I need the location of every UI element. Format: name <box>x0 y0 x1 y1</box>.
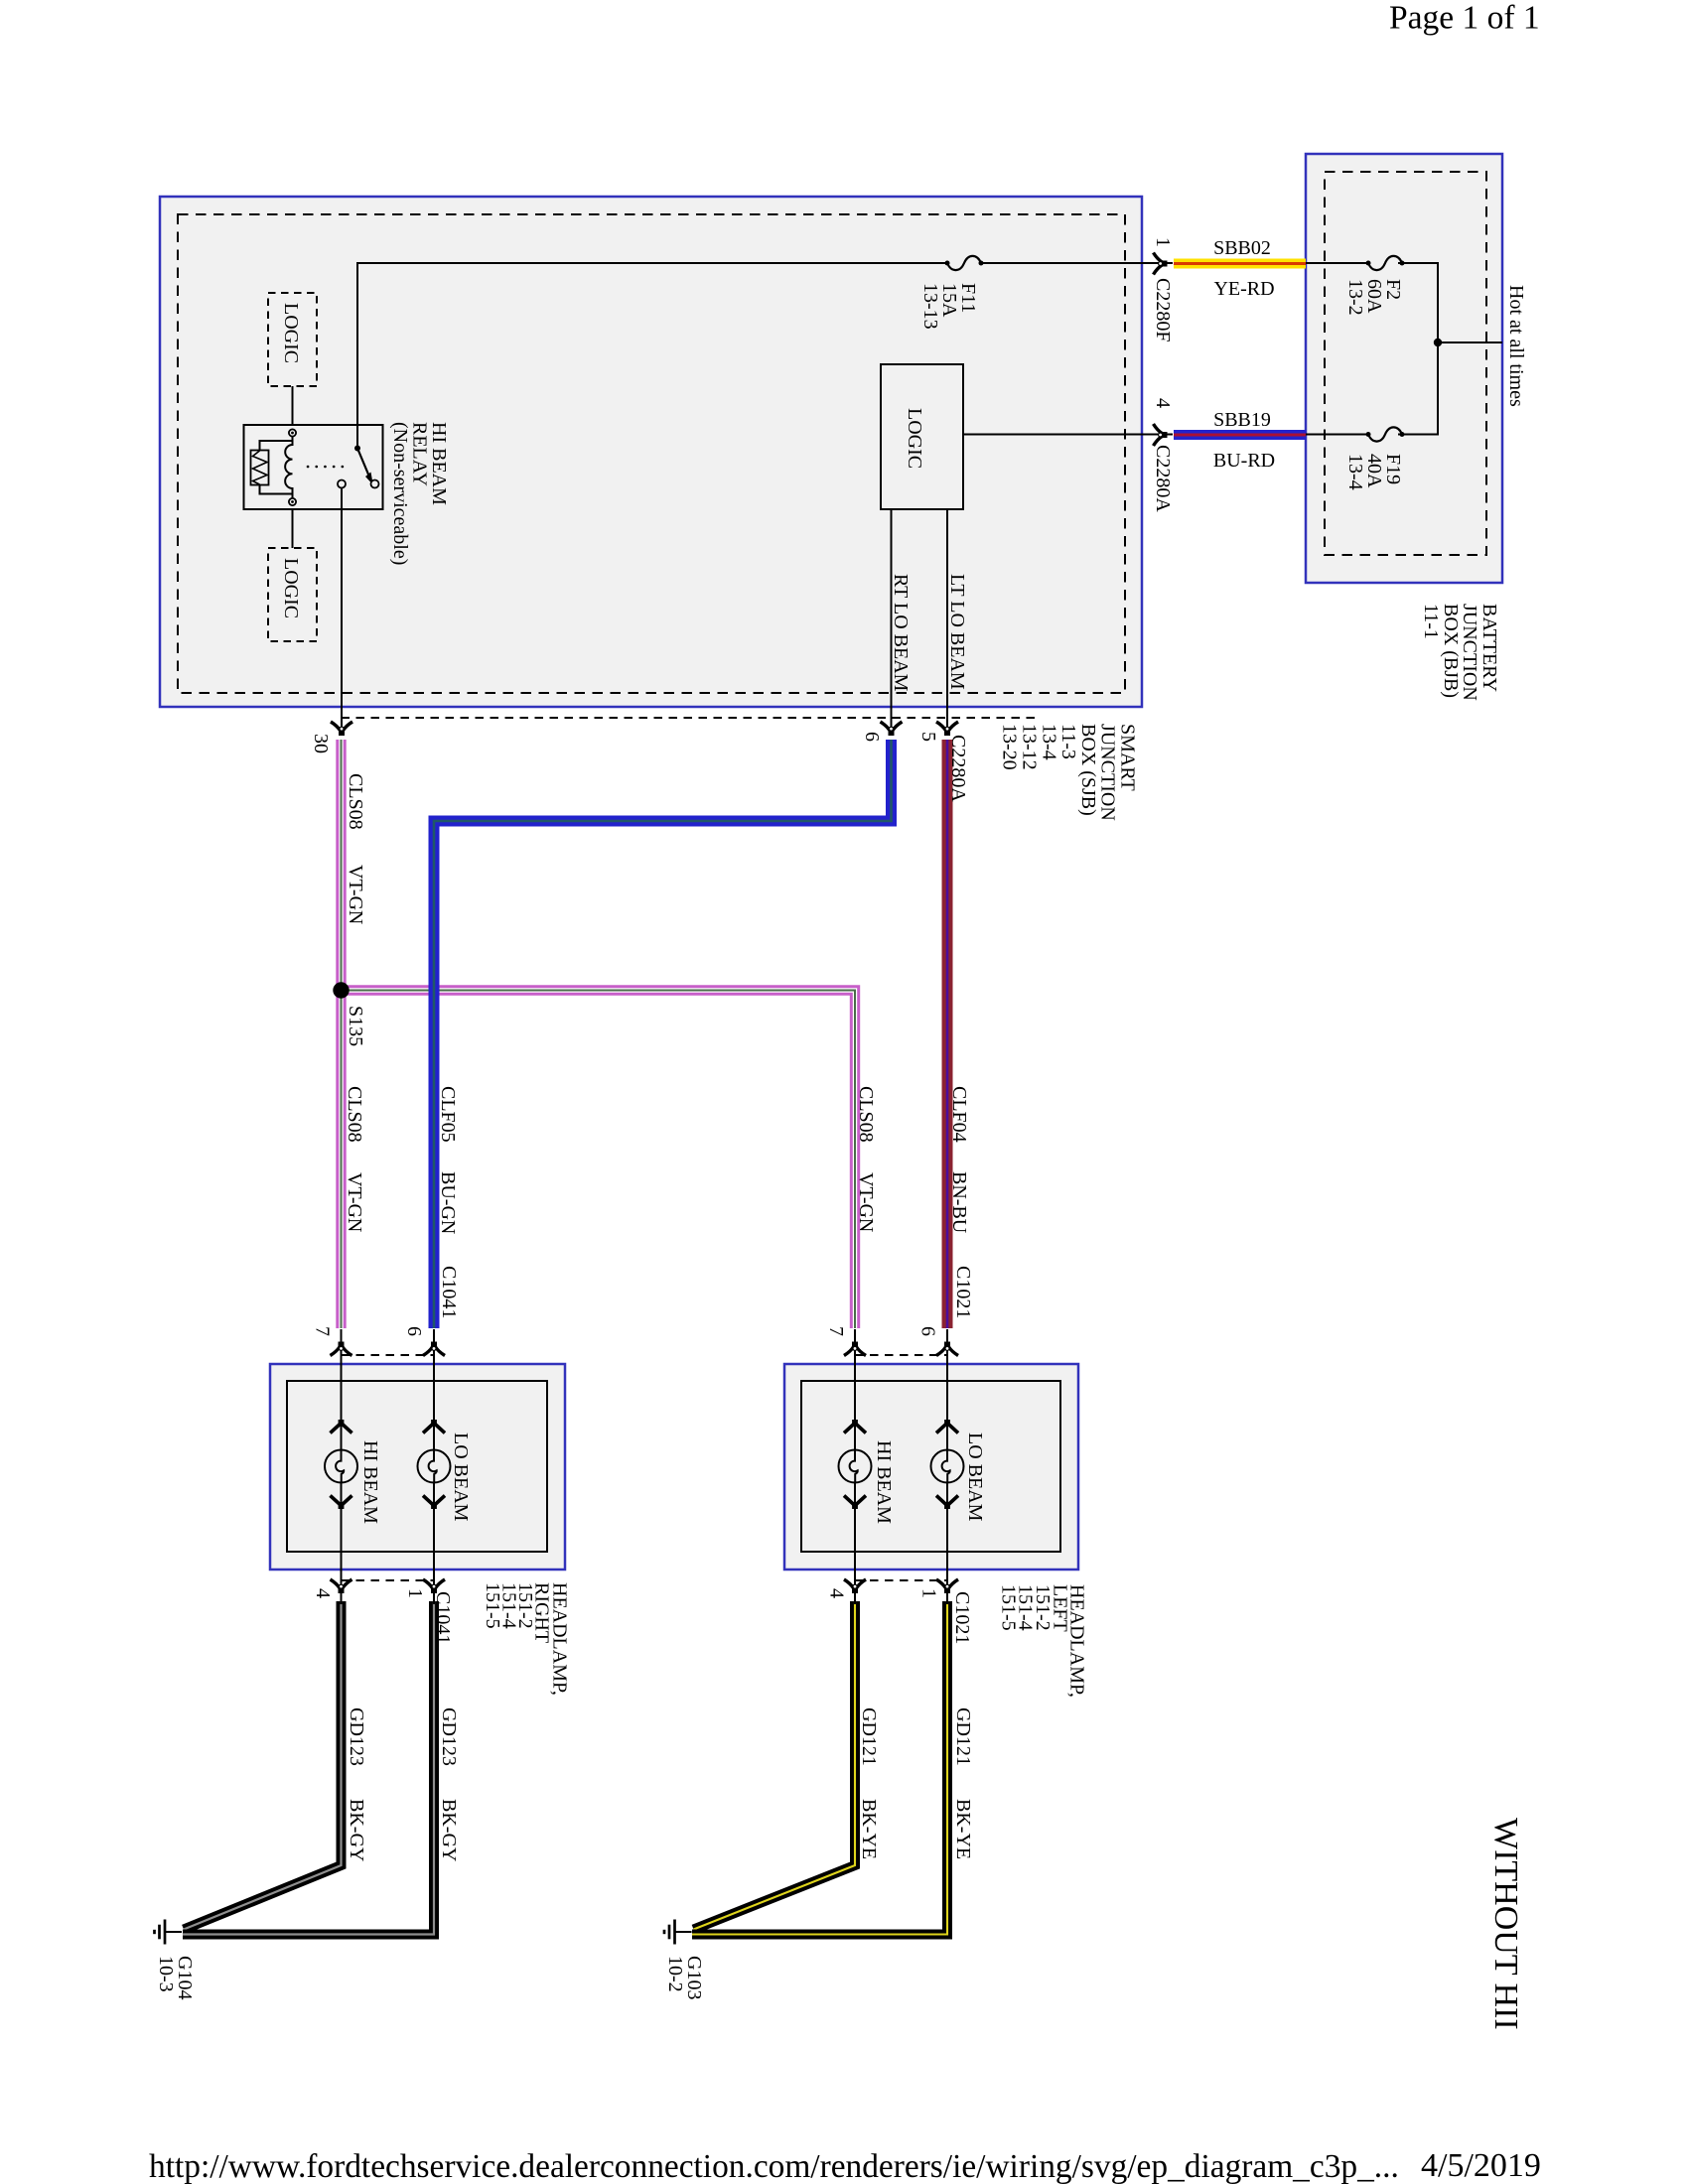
svg-text:BU-GN: BU-GN <box>437 1171 459 1234</box>
smart junction box SJB outline <box>160 197 1142 707</box>
bulb LO BEAM right <box>418 1450 451 1483</box>
svg-text:(Non-serviceable): (Non-serviceable) <box>389 422 411 565</box>
wire LOGIC pin 5 stem <box>946 509 948 730</box>
wire LOGIC pin 6 stem <box>891 509 893 730</box>
bulb HI BEAM right <box>325 1450 357 1483</box>
relay resistor <box>251 451 269 485</box>
headlamp right inner box <box>287 1381 547 1552</box>
svg-text:http://www.fordtechservice.dea: http://www.fordtechservice.dealerconnect… <box>149 2148 1399 2184</box>
svg-text:CLS08: CLS08 <box>345 773 366 830</box>
svg-text:13-4: 13-4 <box>1038 724 1059 760</box>
svg-text:Page 1 of 1: Page 1 of 1 <box>1389 0 1540 37</box>
relay actuation dotted line <box>308 466 351 469</box>
wire LOGIC to connector C2280A <box>963 434 1173 436</box>
svg-text:13-20: 13-20 <box>999 724 1021 770</box>
wire GD123 BK-GY headlamp right pin 1 to G104 <box>183 1601 434 1935</box>
relay HI BEAM RELAY box <box>244 425 383 509</box>
svg-text:30: 30 <box>310 734 332 753</box>
svg-text:S135: S135 <box>345 1006 366 1046</box>
connector C2280A marker (to BJB) <box>1154 424 1168 446</box>
svg-text:LO BEAM: LO BEAM <box>450 1433 472 1522</box>
connector C2280F marker <box>1154 253 1168 275</box>
wire GD123 BK-GY headlamp right pin 4 to G104 <box>184 1601 342 1930</box>
svg-text:6: 6 <box>403 1326 425 1336</box>
svg-text:GD121: GD121 <box>952 1707 974 1766</box>
svg-text:JUNCTION: JUNCTION <box>1097 724 1119 821</box>
wire relay to fuse F11 <box>357 263 945 448</box>
wire CLS08 VT-GN pin30 to S135 to headlamp right pin 7 <box>336 740 346 1328</box>
headlamp right bottom connector dashed line <box>342 1579 435 1581</box>
svg-text:4/5/2019: 4/5/2019 <box>1421 2147 1541 2184</box>
svg-text:HI BEAM: HI BEAM <box>873 1440 895 1524</box>
headlamp right pin 1 marker <box>423 1579 445 1593</box>
svg-text:GD123: GD123 <box>346 1707 367 1766</box>
svg-text:151-5: 151-5 <box>998 1584 1020 1631</box>
svg-text:VT-GN: VT-GN <box>344 1172 365 1232</box>
headlamp left pin 7 marker <box>844 1342 866 1356</box>
headlamp left pin 1 marker <box>936 1579 958 1593</box>
bulb LO BEAM left <box>931 1450 964 1483</box>
svg-text:13-13: 13-13 <box>919 283 941 330</box>
headlamp left LO BEAM line <box>946 1329 948 1604</box>
svg-text:1: 1 <box>918 1588 940 1598</box>
headlamp left bottom connector dashed line <box>855 1579 947 1581</box>
svg-text:BATTERY: BATTERY <box>1478 604 1500 692</box>
svg-text:LOGIC: LOGIC <box>280 303 302 363</box>
bulb arrows right LO <box>423 1420 445 1433</box>
svg-text:SBB19: SBB19 <box>1213 409 1271 431</box>
svg-text:C1021: C1021 <box>951 1591 973 1644</box>
headlamp right LO BEAM line <box>433 1329 435 1604</box>
svg-text:C1041: C1041 <box>432 1591 454 1644</box>
svg-text:BK-GY: BK-GY <box>346 1799 367 1861</box>
wire GD121 BK-YE headlamp left pin 1 to G103 <box>692 1601 947 1935</box>
svg-text:C2280F: C2280F <box>1152 278 1174 341</box>
headlamp right pin 4 marker <box>331 1579 352 1593</box>
connector pin 5 marker <box>936 722 958 736</box>
svg-text:VT-GN: VT-GN <box>345 865 366 924</box>
svg-text:5: 5 <box>917 732 939 742</box>
svg-text:LOGIC: LOGIC <box>280 558 302 618</box>
headlamp right pin 6 marker <box>423 1342 445 1356</box>
svg-text:13-12: 13-12 <box>1019 724 1041 770</box>
svg-text:LOGIC: LOGIC <box>904 408 925 469</box>
svg-text:10-3: 10-3 <box>155 1956 177 1992</box>
SJB inner dashed border <box>178 214 1125 693</box>
bulb arrows right HI <box>331 1420 352 1433</box>
svg-text:SMART: SMART <box>1117 724 1139 791</box>
svg-text:10-2: 10-2 <box>664 1956 686 1992</box>
headlamp right HI BEAM line <box>341 1329 343 1604</box>
wire relay switch to pin 30 <box>341 488 343 731</box>
headlamp right box <box>270 1364 565 1570</box>
svg-text:CLF05: CLF05 <box>437 1086 459 1143</box>
relay switch arm <box>357 449 369 477</box>
svg-text:SBB02: SBB02 <box>1213 237 1271 259</box>
wire GD121 BK-YE headlamp left pin 4 to G103 <box>694 1601 856 1930</box>
svg-text:C1041: C1041 <box>438 1266 460 1318</box>
svg-text:YE-RD: YE-RD <box>1213 278 1274 300</box>
svg-text:1: 1 <box>404 1588 426 1598</box>
headlamp left top connector dashed line <box>855 1354 947 1356</box>
headlamp right pin 7 marker <box>331 1342 352 1356</box>
svg-text:VT-GN: VT-GN <box>855 1172 877 1232</box>
fuse F19 40A <box>1366 427 1405 441</box>
svg-text:HI BEAM: HI BEAM <box>359 1440 381 1524</box>
svg-text:151-5: 151-5 <box>482 1582 503 1629</box>
relay top terminal <box>289 429 296 436</box>
svg-text:C1021: C1021 <box>952 1266 974 1318</box>
svg-text:GD123: GD123 <box>438 1707 460 1766</box>
svg-text:CLS08: CLS08 <box>344 1086 365 1143</box>
svg-text:6: 6 <box>861 732 883 742</box>
svg-text:Hot at all times: Hot at all times <box>1505 285 1527 407</box>
svg-text:CLF04: CLF04 <box>948 1086 970 1143</box>
svg-text:GD121: GD121 <box>858 1707 880 1766</box>
battery junction box BJB outline <box>1306 154 1502 583</box>
headlamp right top connector dashed line <box>342 1354 435 1356</box>
splice S135 <box>333 982 349 998</box>
connector pin 6 marker <box>881 722 903 736</box>
wire relay coil to LOGIC2 <box>292 509 294 548</box>
headlamp left box <box>784 1364 1078 1570</box>
svg-text:4: 4 <box>312 1588 334 1598</box>
headlamp left pin 6 marker <box>936 1342 958 1356</box>
wire LOGIC1 to relay coil <box>292 386 294 425</box>
wire SBB02 YE-RD <box>1174 259 1306 269</box>
svg-text:LO BEAM: LO BEAM <box>964 1433 986 1522</box>
BJB internal wiring <box>1306 263 1502 435</box>
svg-text:13-2: 13-2 <box>1344 279 1366 316</box>
connector C2280A dashed line under SJB <box>342 717 1037 719</box>
bulb HI BEAM left <box>839 1450 872 1483</box>
BJB junction node <box>1434 339 1442 346</box>
svg-text:BN-BU: BN-BU <box>948 1171 970 1234</box>
relay resistor connections <box>260 441 293 494</box>
svg-text:BU-RD: BU-RD <box>1213 450 1275 472</box>
svg-text:C2280A: C2280A <box>1152 445 1174 512</box>
relay coil <box>285 437 292 498</box>
wire SBB19 BU-RD <box>1174 430 1306 440</box>
bulb arrows left LO <box>936 1420 958 1433</box>
svg-text:C2280A: C2280A <box>947 735 969 802</box>
logic box dashed lower <box>268 548 317 641</box>
relay switch pivot <box>354 446 360 452</box>
connector pin 30 marker <box>331 722 352 736</box>
bulb arrows left HI <box>844 1420 866 1433</box>
BJB inner dashed border <box>1325 172 1486 555</box>
svg-text:BOX (BJB): BOX (BJB) <box>1440 604 1462 698</box>
svg-text:BK-YE: BK-YE <box>858 1799 880 1859</box>
relay switch contacts <box>338 480 346 488</box>
svg-text:CLS08: CLS08 <box>855 1086 877 1143</box>
headlamp left pin 4 marker <box>844 1579 866 1593</box>
wire CLF05 BU-GN SJB pin6 to headlamp right pin 6 <box>434 740 892 1328</box>
svg-text:WITHOUT HII: WITHOUT HII <box>1487 1818 1524 2030</box>
svg-text:RT LO BEAM: RT LO BEAM <box>890 574 912 692</box>
relay bottom terminal <box>289 498 296 505</box>
wire fuse F11 to connector C2280F <box>983 262 1173 264</box>
svg-text:LT LO BEAM: LT LO BEAM <box>946 574 968 690</box>
svg-text:6: 6 <box>917 1326 939 1336</box>
svg-text:4: 4 <box>1152 398 1174 408</box>
svg-text:7: 7 <box>825 1326 847 1336</box>
logic box dashed upper <box>268 293 317 386</box>
svg-text:BK-GY: BK-GY <box>438 1799 460 1861</box>
svg-text:11-3: 11-3 <box>1057 724 1079 759</box>
ground G103 <box>664 1920 692 1945</box>
svg-text:4: 4 <box>826 1588 848 1598</box>
ground G104 <box>155 1920 183 1945</box>
wire CLS08 VT-GN branch S135 to headlamp left pin 7 <box>346 991 855 1329</box>
svg-text:BK-YE: BK-YE <box>952 1799 974 1859</box>
svg-text:11-1: 11-1 <box>1420 604 1442 639</box>
svg-text:BOX (SJB): BOX (SJB) <box>1077 724 1099 816</box>
svg-text:13-4: 13-4 <box>1344 454 1366 490</box>
headlamp left HI BEAM line <box>854 1329 856 1604</box>
headlamp left inner box <box>801 1381 1060 1552</box>
logic box solid <box>881 364 963 509</box>
fuse F2 60A <box>1366 256 1405 270</box>
svg-text:7: 7 <box>312 1326 334 1336</box>
wire CLF04 BN-BU SJB pin5 to headlamp left pin 6 <box>942 740 953 1328</box>
fuse F11 15A <box>945 256 984 270</box>
svg-text:1: 1 <box>1152 237 1174 247</box>
